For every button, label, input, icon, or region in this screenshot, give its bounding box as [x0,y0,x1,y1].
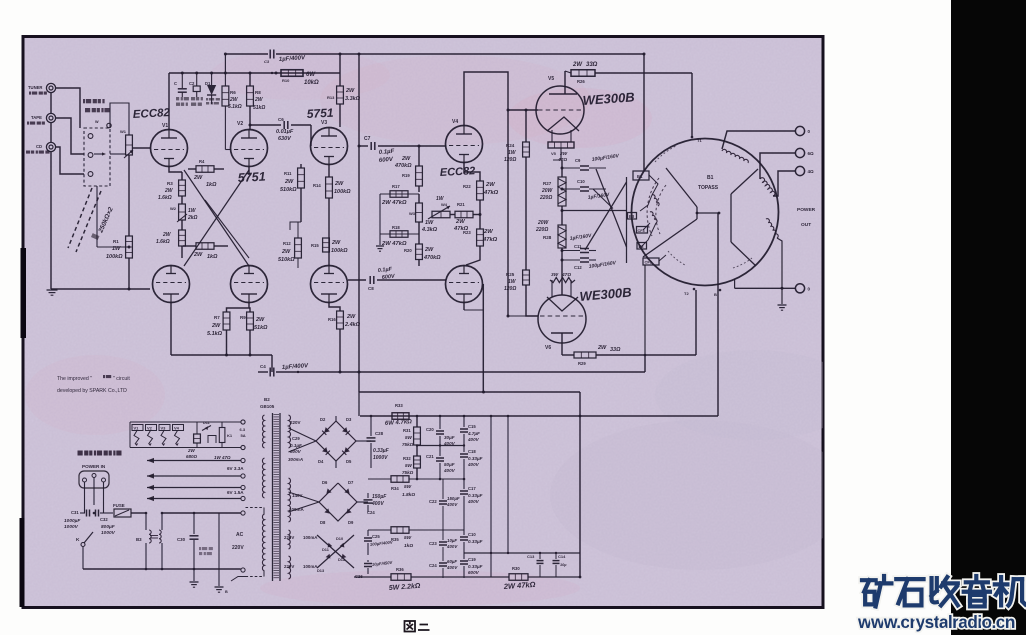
svg-text:" circuit: " circuit [113,376,130,382]
svg-text:2W: 2W [211,323,221,329]
svg-text:B3: B3 [136,537,142,542]
svg-text:FUSE: FUSE [113,503,125,508]
svg-text:CD: CD [36,144,42,149]
svg-text:C8: C8 [368,286,374,291]
svg-text:400V: 400V [443,468,456,473]
svg-text:C13: C13 [527,554,535,559]
svg-text:The improved ": The improved " [57,376,92,382]
svg-text:400V: 400V [446,502,458,507]
svg-text:0.33µF: 0.33µF [468,456,483,461]
svg-text:3W: 3W [551,272,559,278]
svg-text:2W: 2W [255,317,265,323]
svg-text:6W: 6W [306,72,316,78]
svg-text:R8: R8 [255,90,261,95]
svg-text:V2: V2 [237,121,243,127]
svg-text:R9: R9 [240,315,246,320]
svg-text:2W: 2W [345,88,355,94]
svg-text:R1: R1 [113,239,119,244]
svg-text:R24: R24 [506,143,515,148]
svg-text:R19: R19 [402,173,410,178]
svg-text:C10: C10 [468,532,476,537]
svg-text:2W: 2W [346,314,356,320]
svg-text:R7: R7 [214,315,220,320]
svg-text:C6: C6 [278,117,284,122]
svg-text:100kΩ: 100kΩ [334,189,351,195]
svg-text:100mA: 100mA [303,564,318,569]
svg-text:6Ω: 6Ω [808,151,815,156]
svg-text:2W: 2W [254,97,264,103]
svg-text:1000V: 1000V [373,455,388,461]
svg-text:V5: V5 [548,76,554,82]
svg-text:C12: C12 [574,265,582,270]
svg-text:10µF: 10µF [447,538,457,543]
svg-text:400V: 400V [467,462,480,467]
svg-text:400V: 400V [371,501,384,507]
svg-text:0.33µF: 0.33µF [373,448,390,454]
svg-text:TOPASS: TOPASS [698,185,719,191]
svg-text:GB105: GB105 [260,404,275,409]
svg-text:2W: 2W [334,181,344,187]
svg-text:2W: 2W [401,156,411,162]
svg-text:R29: R29 [578,361,586,366]
svg-text:C18: C18 [468,449,476,454]
svg-text:400V: 400V [443,441,456,446]
svg-text:W3: W3 [409,211,416,216]
svg-text:2W: 2W [162,232,172,238]
svg-text:220V: 220V [284,535,294,540]
svg-text:C29: C29 [292,436,300,441]
svg-text:2.4kΩ: 2.4kΩ [344,322,361,328]
svg-text:2W: 2W [193,252,203,258]
svg-text:2W: 2W [424,247,434,253]
svg-text:V4: V4 [452,119,458,125]
svg-text:C31: C31 [71,510,79,515]
svg-text:220Ω: 220Ω [535,227,548,233]
svg-text:K1: K1 [227,433,233,438]
svg-text:800µF: 800µF [101,524,116,530]
svg-text:W2: W2 [170,206,177,211]
svg-text:R14: R14 [313,183,321,188]
svg-text:150µF: 150µF [372,494,387,500]
svg-text:R32: R32 [403,456,411,461]
svg-text:C17: C17 [468,486,476,491]
svg-text:D12: D12 [338,557,346,562]
svg-text:POWER: POWER [797,207,816,213]
svg-text:B: B [225,590,228,594]
svg-text:2W 47kΩ: 2W 47kΩ [381,241,407,247]
svg-text:D11: D11 [203,421,210,425]
svg-text:510kΩ: 510kΩ [280,187,297,193]
svg-text:0.01µF: 0.01µF [276,129,294,135]
svg-text:220V: 220V [232,545,244,551]
svg-text:V3: V3 [161,426,167,431]
svg-text:1W: 1W [508,150,517,156]
svg-text:D6: D6 [322,480,328,485]
svg-text:C30: C30 [177,537,186,542]
svg-text:R18: R18 [392,225,400,230]
svg-text:C21: C21 [426,454,434,459]
svg-text:C25: C25 [372,534,380,539]
svg-text:C28: C28 [375,431,384,436]
svg-text:R26: R26 [577,79,585,84]
svg-text:2kΩ: 2kΩ [187,215,198,221]
svg-text:R15: R15 [311,243,319,248]
svg-text:D11: D11 [322,547,330,552]
svg-text:C22: C22 [429,499,437,504]
svg-text:D7: D7 [348,480,354,485]
svg-text:R12: R12 [283,241,291,246]
svg-text:V1: V1 [134,426,140,431]
svg-text:C4: C4 [260,364,266,369]
svg-text:6.3: 6.3 [240,427,246,432]
svg-text:0.33µF: 0.33µF [468,539,483,544]
svg-text:220Ω: 220Ω [539,195,552,201]
svg-text:C7: C7 [364,136,371,142]
svg-text:R36: R36 [396,567,404,572]
svg-text:1000V: 1000V [64,524,79,530]
svg-text:C20: C20 [426,427,434,432]
svg-text:5751: 5751 [306,106,334,121]
svg-text:51kΩ: 51kΩ [254,325,268,331]
svg-text:2W: 2W [284,179,294,185]
svg-text:47Ω: 47Ω [561,272,571,278]
svg-text:TAPE: TAPE [31,115,42,120]
svg-text:47kΩ: 47kΩ [483,190,499,196]
svg-text:1W: 1W [188,208,197,214]
svg-text:5A: 5A [241,433,246,438]
svg-text:0.33µF: 0.33µF [468,564,483,569]
svg-text:B: B [714,292,717,297]
svg-text:470kΩ: 470kΩ [394,163,412,169]
svg-text:T2: T2 [684,291,689,296]
svg-text:B1: B1 [707,175,714,181]
svg-text:V1: V1 [162,123,168,129]
svg-text:2W: 2W [455,219,465,225]
svg-text:R13: R13 [327,95,335,100]
svg-text:120Ω: 120Ω [504,286,516,292]
svg-text:5W: 5W [405,463,413,468]
svg-text:30µF: 30µF [444,435,455,440]
svg-text:R25: R25 [506,272,515,277]
svg-text:47kΩ: 47kΩ [482,237,498,243]
svg-text:47kΩ: 47kΩ [453,226,469,232]
svg-text:R31: R31 [403,428,411,433]
svg-text:R27: R27 [543,181,552,186]
svg-text:20W: 20W [541,188,554,194]
svg-text:10kΩ: 10kΩ [304,80,319,86]
svg-text:K: K [76,537,80,543]
svg-text:V2: V2 [147,426,153,431]
svg-text:1.8kΩ: 1.8kΩ [402,492,415,498]
svg-text:C14: C14 [558,554,566,559]
svg-text:2W: 2W [193,175,203,181]
svg-text:600V: 600V [468,570,480,575]
svg-text:V4: V4 [174,426,180,431]
svg-text:V5: V5 [551,151,557,156]
svg-text:2W: 2W [281,249,291,255]
svg-text:C11: C11 [574,244,582,249]
svg-text:2W: 2W [331,240,341,246]
svg-text:R28: R28 [543,235,552,240]
svg-text:TUNER: TUNER [28,85,42,90]
svg-text:C3: C3 [264,59,270,64]
svg-text:100mA: 100mA [289,507,305,512]
svg-text:150µF: 150µF [447,496,460,501]
svg-text:51kΩ: 51kΩ [253,105,265,111]
svg-text:V6: V6 [545,345,551,351]
svg-text:1kΩ: 1kΩ [404,543,413,549]
svg-text:33Ω: 33Ω [586,62,598,68]
svg-text:400V: 400V [446,544,458,549]
svg-text:2W: 2W [572,62,583,68]
svg-text:680Ω: 680Ω [186,454,198,459]
svg-text:C2: C2 [189,81,195,86]
svg-text:2W: 2W [597,345,607,351]
svg-text:ECC82: ECC82 [133,107,171,121]
svg-text:470kΩ: 470kΩ [423,255,441,261]
svg-text:D10: D10 [336,536,343,541]
svg-text:R3: R3 [167,181,173,186]
svg-text:C23: C23 [429,541,437,546]
svg-text:1kΩ: 1kΩ [206,182,217,188]
svg-text:2W: 2W [187,448,196,453]
svg-text:D2: D2 [320,417,326,422]
svg-text:W: W [95,120,99,124]
svg-text:AC: AC [236,532,244,538]
svg-text:75kΩ: 75kΩ [402,442,414,447]
svg-text:2W: 2W [164,188,174,194]
svg-text:D4: D4 [318,459,324,464]
svg-text:R35: R35 [391,537,399,542]
svg-text:W4: W4 [441,202,448,207]
svg-text:R16: R16 [328,317,336,322]
svg-text:W1: W1 [120,129,127,134]
svg-text:R11: R11 [284,171,292,176]
svg-text:5W: 5W [404,484,412,490]
svg-text:1W 47Ω: 1W 47Ω [214,455,231,460]
svg-text:510kΩ: 510kΩ [278,257,295,263]
svg-text:C9: C9 [575,158,581,163]
svg-text:R21: R21 [457,202,465,207]
svg-text:33Ω: 33Ω [610,347,621,353]
svg-text:C32: C32 [100,517,108,522]
svg-text:www.crystalradio.cn: www.crystalradio.cn [857,612,1015,632]
svg-text:100mA: 100mA [303,535,318,540]
svg-text:developed by SPARK Co.,LTD: developed by SPARK Co.,LTD [57,388,127,394]
svg-text:0.33µF: 0.33µF [468,493,483,498]
svg-text:C15: C15 [468,424,476,429]
svg-text:0.1µF: 0.1µF [290,443,302,448]
svg-text:CF2: CF2 [645,260,653,265]
svg-text:60µF: 60µF [447,559,457,564]
svg-text:100kΩ: 100kΩ [331,248,348,254]
svg-text:R10: R10 [282,78,290,83]
svg-text:220V: 220V [290,420,301,425]
svg-text:D3: D3 [346,417,352,422]
svg-text:5W: 5W [405,435,413,440]
svg-text:75kΩ: 75kΩ [402,470,414,475]
svg-text:E3: E3 [629,214,635,219]
svg-text:6V 1.5A: 6V 1.5A [227,490,244,495]
svg-text:1W: 1W [508,279,517,285]
svg-text:D5: D5 [346,459,352,464]
svg-text:1000V: 1000V [101,530,116,536]
svg-text:4.3kΩ: 4.3kΩ [421,227,438,233]
svg-text:POWER IN: POWER IN [82,464,106,469]
svg-text:140V: 140V [292,493,303,498]
svg-text:400V: 400V [446,565,458,570]
svg-text:R20: R20 [404,248,412,253]
svg-text:1000µF: 1000µF [64,518,81,524]
svg-text:100kΩ: 100kΩ [106,254,123,260]
svg-text:R22: R22 [463,184,471,189]
svg-text:V3: V3 [321,120,327,126]
svg-text:6V 3.3A: 6V 3.3A [227,466,244,471]
svg-text:220V: 220V [284,564,294,569]
svg-text:B2: B2 [264,397,270,402]
svg-text:1.6kΩ: 1.6kΩ [156,239,170,245]
svg-text:4.7µF: 4.7µF [467,431,480,436]
svg-text:2W 47kΩ: 2W 47kΩ [381,200,407,206]
svg-text:20W: 20W [537,220,550,226]
svg-text:5.1kΩ: 5.1kΩ [228,104,242,110]
svg-text:C19: C19 [468,557,476,562]
svg-text:R4: R4 [199,159,205,164]
svg-text:600V: 600V [290,449,302,454]
svg-text:5W: 5W [404,535,412,541]
svg-text:D9: D9 [348,520,354,525]
svg-text:5751: 5751 [237,170,266,185]
svg-text:D13: D13 [317,568,325,573]
svg-text:C24: C24 [429,563,437,568]
svg-text:630V: 630V [278,136,292,142]
svg-text:C24: C24 [367,510,375,515]
svg-text:C10: C10 [577,179,585,184]
svg-text:1W: 1W [425,220,434,226]
svg-text:400V: 400V [467,437,480,442]
svg-text:OUT: OUT [801,222,811,228]
svg-text:10µ: 10µ [560,563,567,567]
svg-text:E1: E1 [637,174,643,179]
svg-text:2W: 2W [229,97,239,103]
svg-text:2W: 2W [559,151,568,157]
svg-text:R6: R6 [230,90,236,95]
svg-text:C: C [174,81,177,86]
svg-text:400V: 400V [467,499,480,504]
svg-text:D8: D8 [320,520,326,525]
svg-text:R34: R34 [391,486,399,491]
svg-text:5.1kΩ: 5.1kΩ [207,331,223,337]
svg-text:120Ω: 120Ω [504,157,516,163]
svg-text:R30: R30 [512,566,520,571]
svg-text:2W: 2W [483,229,493,235]
svg-text:2W: 2W [485,182,495,188]
svg-text:50µF: 50µF [444,462,455,467]
svg-text:1kΩ: 1kΩ [207,254,218,260]
svg-text:R33: R33 [395,403,403,408]
svg-text:R17: R17 [392,184,400,189]
svg-text:300mA: 300mA [288,457,303,462]
svg-text:4Ω: 4Ω [808,169,815,174]
svg-text:1.6kΩ: 1.6kΩ [158,195,172,201]
